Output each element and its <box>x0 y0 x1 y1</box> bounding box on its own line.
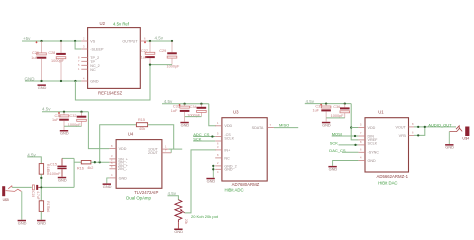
svg-text:2: 2 <box>83 37 85 41</box>
svg-text:6: 6 <box>144 37 146 41</box>
wire U3 caps bottom <box>185 116 202 118</box>
svg-text:2: 2 <box>217 161 219 165</box>
svg-text:SDATA: SDATA <box>252 126 264 130</box>
svg-text:GND: GND <box>18 220 27 225</box>
wire gnd link to output caps <box>75 65 150 100</box>
svg-text:4.7uF: 4.7uF <box>36 191 40 199</box>
pin 1IN- U4 <box>109 158 127 165</box>
svg-text:20k: 20k <box>184 219 188 225</box>
ground GND5 <box>58 177 67 183</box>
svg-text:IN+: IN+ <box>224 148 230 152</box>
svg-text:Dual OpAmp: Dual OpAmp <box>126 196 151 201</box>
comment Dual OpAmp <box>126 196 151 201</box>
svg-text:4.5v: 4.5v <box>155 36 164 41</box>
svg-text:U$4: U$4 <box>462 137 469 141</box>
svg-text:7: 7 <box>270 123 272 127</box>
svg-text:C33: C33 <box>173 105 180 109</box>
svg-text:2OUT: 2OUT <box>148 151 159 155</box>
pin IN+ U3 <box>215 145 230 152</box>
wire feedback left <box>100 125 137 162</box>
svg-text:5: 5 <box>360 123 362 127</box>
ic U4 box <box>116 140 162 189</box>
svg-text:REF194ESZ: REF194ESZ <box>98 90 122 95</box>
svg-text:U3: U3 <box>233 109 239 114</box>
svg-text:C36: C36 <box>333 105 340 109</box>
gnd net label <box>25 77 36 82</box>
pin 2OUT U4 <box>148 149 171 156</box>
svg-text:4.5v Ref: 4.5v Ref <box>113 21 130 26</box>
ground GND12 <box>445 144 454 150</box>
ground GND11 <box>328 166 337 172</box>
pin CS U3 <box>215 132 231 137</box>
svg-text:OUTPUT: OUTPUT <box>122 39 138 43</box>
pin GND U4 <box>109 173 127 180</box>
svg-text:GND: GND <box>329 167 338 172</box>
wire input riser <box>73 158 75 187</box>
wire 4.5v rail U1 <box>305 103 351 105</box>
net label 4.5v pot <box>168 191 177 196</box>
wire U4 output <box>169 148 183 150</box>
svg-text:4: 4 <box>83 77 85 81</box>
svg-text:5: 5 <box>111 161 113 165</box>
svg-text:C28: C28 <box>48 51 55 55</box>
svg-text:8: 8 <box>360 140 362 144</box>
pin GND U1 <box>358 156 376 163</box>
wire 4.5v bias stub <box>27 157 41 164</box>
dac U1 refdes <box>378 109 384 114</box>
pin 2IN- U4 <box>109 164 127 171</box>
svg-text:7: 7 <box>360 131 362 135</box>
svg-text:GND: GND <box>368 159 377 163</box>
wire jack sleeve to gnd <box>21 191 23 219</box>
svg-text:GND: GND <box>38 85 47 90</box>
svg-text:HiBit DAC: HiBit DAC <box>378 181 397 186</box>
svg-text:R15: R15 <box>138 118 145 122</box>
svg-text:GND: GND <box>37 220 46 225</box>
ground GND2 <box>60 126 69 135</box>
pin TP_2 <box>78 55 99 60</box>
wire +5v rail <box>22 40 81 42</box>
pin VDD U4 <box>109 144 126 151</box>
wire U4 gnd lead <box>107 178 110 184</box>
pin SYNC U1 <box>358 148 379 155</box>
svg-text:1uF: 1uF <box>52 118 59 122</box>
comment pot value <box>191 214 219 219</box>
svg-text:C35: C35 <box>315 105 322 109</box>
wire R16 to opamp <box>91 161 110 163</box>
wire DAC_CS <box>342 151 358 153</box>
net label SCK U1 <box>330 141 339 146</box>
svg-text:VDD: VDD <box>224 124 232 128</box>
svg-text:1uF: 1uF <box>312 109 319 113</box>
svg-text:GND: GND <box>322 122 331 127</box>
svg-text:VS: VS <box>90 39 95 43</box>
wire U2 output 4.5v <box>147 40 172 42</box>
junction GND <box>212 168 214 170</box>
wire U1 gnd <box>333 161 359 166</box>
pin 2IN+ U4 <box>109 161 128 168</box>
pin NC_2 <box>78 63 100 68</box>
svg-text:AUDIO_OUT: AUDIO_OUT <box>428 122 452 127</box>
junction rail C32 <box>80 111 82 113</box>
pin GND U3 <box>215 168 233 174</box>
svg-text:GND: GND <box>224 168 233 172</box>
ic U3 box <box>222 118 267 181</box>
svg-text:VFB: VFB <box>399 134 407 138</box>
svg-text:8: 8 <box>412 122 414 126</box>
wire MOSI <box>332 135 359 137</box>
power net +5v label <box>23 36 31 41</box>
svg-text:NC: NC <box>224 156 230 160</box>
svg-text:1: 1 <box>217 121 219 125</box>
svg-text:NC_2: NC_2 <box>90 64 99 68</box>
junction rail C31 <box>63 111 65 113</box>
ground GND8 <box>180 117 189 128</box>
capacitor C31 1uF <box>52 112 69 126</box>
net label 4.5v U3 <box>164 99 173 104</box>
adc U3 refdes <box>233 109 239 114</box>
junction SCK U1 <box>354 144 356 146</box>
svg-text:NC: NC <box>90 68 96 72</box>
net label 4.5v out <box>155 36 164 41</box>
capacitor C29 1000pF <box>159 41 180 69</box>
net label ADC_CS <box>193 132 210 137</box>
wire SCK U3 <box>193 140 215 142</box>
svg-text:7: 7 <box>78 59 80 63</box>
svg-text:4.5v: 4.5v <box>42 107 51 112</box>
svg-text:1uF: 1uF <box>171 109 178 113</box>
svg-text:100nF: 100nF <box>50 172 61 176</box>
pin VDD U1 <box>358 123 375 130</box>
svg-text:6: 6 <box>412 131 414 135</box>
wire 4.5v rail U4 <box>42 111 88 113</box>
svg-text:AD5662ARMZ-1: AD5662ARMZ-1 <box>377 174 409 179</box>
svg-text:GND: GND <box>60 131 69 136</box>
net label 4.5v bias <box>27 152 36 157</box>
svg-text:8: 8 <box>217 153 219 157</box>
svg-text:C32: C32 <box>70 114 77 118</box>
svg-text:R16: R16 <box>77 166 84 170</box>
ground GND7 <box>174 229 183 235</box>
svg-text:5k6: 5k6 <box>46 170 50 176</box>
svg-text:-SYNC: -SYNC <box>368 151 380 155</box>
ic U4 part name <box>134 190 158 195</box>
capacitor C34 1000pF <box>187 104 206 118</box>
pin SCLK U3 <box>215 137 234 146</box>
svg-text:GND: GND <box>119 176 128 180</box>
pin VOUT U1 <box>396 122 414 129</box>
svg-text:-SLEEP: -SLEEP <box>90 48 104 52</box>
wire SCK U1 <box>339 144 359 146</box>
wire gnd rail <box>25 80 81 82</box>
junction caps bottom <box>149 63 151 65</box>
wire pot top <box>168 196 179 200</box>
capacitor C26 1uF <box>31 41 46 81</box>
junction U1 VDD tap <box>350 126 352 128</box>
junction gnd C26 <box>40 80 42 82</box>
junction GND_2 <box>212 165 214 167</box>
wire jack tip to C19 <box>12 186 32 188</box>
svg-text:SCLK: SCLK <box>368 142 378 146</box>
svg-text:SCLK: SCLK <box>224 137 234 141</box>
net label 4.5v U1 <box>306 99 315 104</box>
svg-text:6: 6 <box>217 142 219 146</box>
svg-text:1: 1 <box>78 67 80 71</box>
wire riser to R16 <box>74 161 81 163</box>
pin DIN U1 <box>358 131 374 138</box>
op-amp U2 refdes <box>100 21 106 26</box>
junction bias node <box>40 177 42 179</box>
svg-text:4k2: 4k2 <box>87 166 93 170</box>
pin TP <box>78 59 96 64</box>
wire 4.5v to U3 VDD <box>209 104 216 126</box>
svg-text:5: 5 <box>78 63 80 67</box>
junction rail C34 <box>200 103 202 105</box>
svg-text:SCK: SCK <box>330 141 339 146</box>
connector U$5 jack body <box>2 186 21 202</box>
pin VDD U3 <box>215 121 232 128</box>
capacitor C32 1000pF <box>68 112 86 127</box>
svg-text:8: 8 <box>78 55 80 59</box>
pin VFB U1 <box>399 131 414 138</box>
resistor R14 <box>39 164 50 176</box>
ground GND4 <box>18 220 27 226</box>
pin SCLK U1 <box>358 140 377 146</box>
wire R17 to gnd <box>40 211 42 219</box>
resistor R15 <box>136 118 147 131</box>
junction +5v C26 <box>40 40 42 42</box>
capacitor C27 1uF <box>141 41 155 65</box>
svg-text:GND: GND <box>58 177 67 182</box>
svg-text:MISO: MISO <box>279 123 289 128</box>
ic U1 part name <box>377 174 409 179</box>
wire VOUT audio <box>414 126 456 128</box>
svg-text:VOUT: VOUT <box>396 125 407 129</box>
pin 1IN+ U4 <box>109 154 128 161</box>
op-amp U4 refdes <box>128 131 134 136</box>
net label DAC_CS <box>329 148 346 153</box>
svg-text:3: 3 <box>111 154 113 158</box>
svg-text:C15: C15 <box>50 163 57 167</box>
svg-text:GND: GND <box>181 122 190 127</box>
comment 4.5v Ref <box>113 21 130 26</box>
connector U$4 contacts <box>449 126 462 132</box>
svg-text:C31: C31 <box>55 114 62 118</box>
net label AUDIO_OUT <box>428 122 452 127</box>
capacitor C19 4.7uF <box>31 185 41 200</box>
net label SCK U3 <box>193 137 202 142</box>
pin NC U3 <box>215 153 230 160</box>
wire 4.5v to U4 VDD <box>88 112 109 149</box>
wire U1 VDD branch <box>351 127 358 129</box>
svg-text:6: 6 <box>360 148 362 152</box>
junction out C27 <box>149 40 151 42</box>
ground GND9 <box>206 178 215 184</box>
wire feedback right <box>148 125 174 149</box>
potentiometer R18 <box>175 200 188 225</box>
svg-text:4: 4 <box>360 156 362 160</box>
wire 100nF top link <box>62 157 74 159</box>
svg-text:3: 3 <box>83 45 85 49</box>
ground GND3 <box>37 220 46 226</box>
svg-text:4: 4 <box>217 170 219 174</box>
pin VS <box>81 37 95 44</box>
wire outputs link <box>170 149 172 153</box>
ic U2 box <box>88 28 141 89</box>
wire U4 caps bottom <box>64 125 82 127</box>
svg-text:1000pF: 1000pF <box>51 59 65 63</box>
svg-text:5: 5 <box>217 132 219 136</box>
svg-text:1: 1 <box>165 144 167 148</box>
junction ADC_CS <box>211 135 213 137</box>
svg-text:TLV2472AIP: TLV2472AIP <box>134 190 158 195</box>
svg-text:VDD: VDD <box>368 126 376 130</box>
wire SDATA MISO <box>274 127 298 129</box>
pin NC <box>78 67 96 72</box>
svg-text:AD7680ARMZ: AD7680ARMZ <box>232 182 260 187</box>
junction input b <box>99 161 101 163</box>
pin GND_2 U3 <box>215 161 236 168</box>
svg-text:1OUT: 1OUT <box>148 147 159 151</box>
net label 4.5v U4 <box>42 107 51 112</box>
svg-text:20 Koh 20k pot: 20 Koh 20k pot <box>191 214 219 219</box>
svg-text:U4: U4 <box>128 131 134 136</box>
junction MOSI <box>354 135 356 137</box>
junction VFB <box>417 134 419 136</box>
capacitor C15 100nF <box>50 158 67 176</box>
pin VREF U1 <box>358 138 378 142</box>
svg-text:5k6: 5k6 <box>46 207 50 213</box>
svg-text:C29: C29 <box>159 49 166 53</box>
resistor R17 <box>39 201 50 213</box>
junction +5v C28 <box>60 40 62 42</box>
svg-text:3: 3 <box>217 145 219 149</box>
pin 1OUT U4 <box>148 144 169 151</box>
resistor R16 <box>77 161 94 171</box>
svg-text:1uF: 1uF <box>141 56 148 60</box>
wire pot to gnd <box>177 222 179 228</box>
svg-text:TP_2: TP_2 <box>90 56 99 60</box>
svg-text:1uF: 1uF <box>31 56 38 60</box>
svg-text:8: 8 <box>111 144 113 148</box>
net label MISO <box>279 123 289 128</box>
svg-text:GND: GND <box>207 178 216 183</box>
wire ADC_CS <box>193 136 215 138</box>
wire wiper to ADC <box>185 150 216 213</box>
svg-text:GND: GND <box>174 229 183 234</box>
svg-text:TP: TP <box>90 60 95 64</box>
svg-text:C27: C27 <box>141 49 148 53</box>
svg-text:GND: GND <box>445 145 454 150</box>
wire 4.5v to U1 <box>351 104 358 140</box>
wire bias chain <box>40 174 42 201</box>
wire U3 gnd pins <box>212 166 214 178</box>
net label MOSI <box>332 132 342 137</box>
wire C19 to riser <box>41 186 74 188</box>
svg-text:GND: GND <box>90 80 99 84</box>
svg-text:U1: U1 <box>378 109 384 114</box>
ic U3 part name <box>232 182 260 187</box>
svg-text:40k: 40k <box>139 127 145 131</box>
capacitor C35 1uF <box>312 104 330 118</box>
connector U$4 body <box>462 127 469 141</box>
pin OUTPUT <box>122 37 147 44</box>
pin SDATA U3 <box>252 123 274 130</box>
svg-text:HiBit ADC: HiBit ADC <box>225 188 244 193</box>
junction gnd C28 <box>60 80 62 82</box>
wire U1 caps bottom <box>326 117 345 119</box>
junction bias cross <box>40 186 42 188</box>
junction rail C33 <box>183 103 185 105</box>
svg-text:VDD: VDD <box>119 147 127 151</box>
svg-text:GND: GND <box>103 184 112 189</box>
junction rail C36 <box>344 102 346 104</box>
capacitor C33 1uF <box>171 104 190 117</box>
ground GND1 <box>38 84 47 90</box>
svg-text:2IN_-: 2IN_- <box>118 167 128 171</box>
ground GND10 <box>322 118 331 128</box>
pin -SLEEP <box>81 45 104 52</box>
ground GND6 <box>103 183 112 189</box>
svg-text:U2: U2 <box>100 21 106 26</box>
svg-text:4: 4 <box>111 173 113 177</box>
svg-text:C19: C19 <box>31 191 35 197</box>
wire -SLEEP branch <box>75 41 81 49</box>
junction VOUT b <box>424 126 426 128</box>
ic U1 box <box>365 118 409 172</box>
capacitor C36 1000pF <box>331 104 350 119</box>
capacitor C28 1000pF <box>48 41 65 81</box>
junction out C29 <box>171 40 173 42</box>
ic U2 part name <box>98 90 122 95</box>
junction +5v sleep branch <box>74 40 76 42</box>
svg-text:C26: C26 <box>32 51 39 55</box>
comment HiBit DAC <box>378 181 397 186</box>
junction VOUT a <box>417 126 419 128</box>
svg-text:2: 2 <box>111 158 113 162</box>
junction rail C35 <box>325 102 327 104</box>
svg-text:+5v: +5v <box>23 36 31 41</box>
wire VFB link <box>414 127 425 135</box>
wire output caps bottom <box>150 64 172 66</box>
comment HiBit ADC <box>225 188 244 193</box>
wire 4.5v rail U3 <box>162 103 209 105</box>
svg-text:U$5: U$5 <box>3 198 9 202</box>
svg-text:C34: C34 <box>190 105 197 109</box>
junction input a <box>94 161 96 163</box>
junction gnd link <box>74 80 76 82</box>
wire connector gnd <box>448 132 450 145</box>
pin GND U2 <box>81 77 99 84</box>
